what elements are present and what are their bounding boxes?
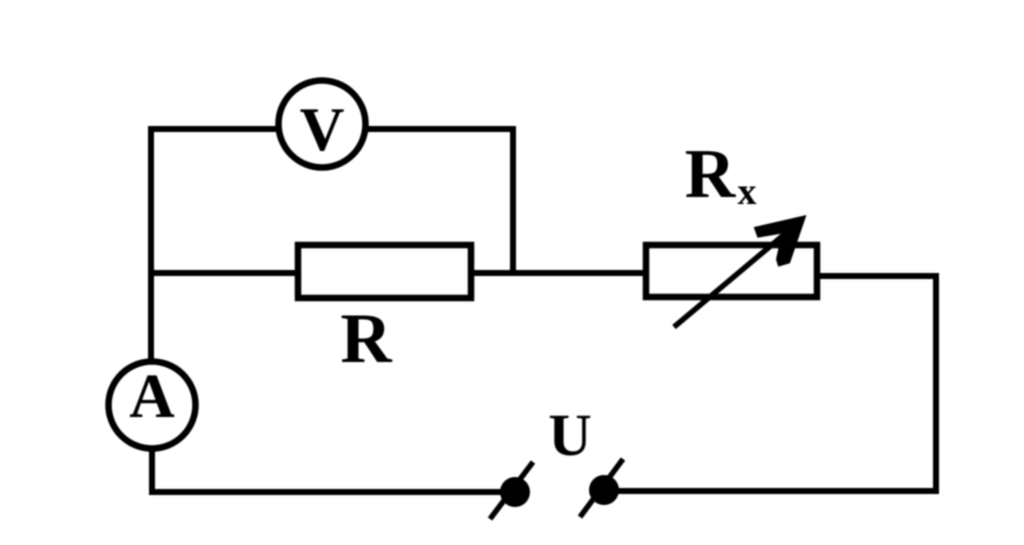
- svg-text:V: V: [300, 96, 345, 164]
- svg-text:R: R: [685, 136, 737, 213]
- svg-text:U: U: [548, 402, 591, 468]
- svg-text:x: x: [738, 171, 757, 213]
- svg-text:A: A: [129, 361, 175, 431]
- svg-text:R: R: [340, 300, 392, 378]
